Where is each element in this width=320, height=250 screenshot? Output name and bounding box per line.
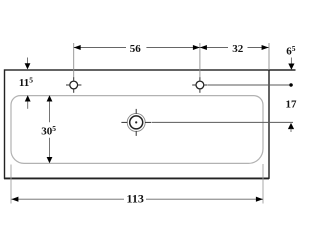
drain outer circle xyxy=(127,113,145,131)
svg-text:56: 56 xyxy=(130,43,142,55)
dimension 6.5 arrow xyxy=(288,58,294,70)
svg-text:17: 17 xyxy=(286,99,298,111)
extension line right faucet hole xyxy=(199,43,201,78)
svg-text:115: 115 xyxy=(19,76,33,89)
dimension 11.5 arrows xyxy=(25,58,31,109)
svg-text:32: 32 xyxy=(232,43,244,55)
washbasin outer outline xyxy=(4,70,269,178)
dimension line 32 xyxy=(200,45,269,50)
dimension line 30.5 xyxy=(47,95,53,163)
extension line basin left bottom xyxy=(10,165,12,204)
extension line right edge xyxy=(268,43,270,70)
faucet hole left xyxy=(66,77,81,93)
basin inner outline xyxy=(11,96,263,164)
dimension line 113 xyxy=(11,197,263,202)
dimension 17 arrow xyxy=(288,123,294,132)
drain centerline right xyxy=(152,121,294,123)
svg-text:65: 65 xyxy=(286,44,296,57)
svg-text:305: 305 xyxy=(41,124,56,137)
extension line basin right bottom xyxy=(262,164,264,204)
faucet hole right xyxy=(192,77,207,93)
faucet hole centerline right xyxy=(208,84,293,86)
drain inner circle xyxy=(130,116,143,129)
extension line left faucet hole xyxy=(73,43,75,78)
drain tick marks xyxy=(121,109,151,136)
dimension line 56 xyxy=(74,45,200,50)
drain center dot xyxy=(135,121,137,123)
dot marker 6.5/17 xyxy=(289,83,292,86)
svg-text:113: 113 xyxy=(127,192,144,206)
top edge reference line right xyxy=(269,69,295,71)
